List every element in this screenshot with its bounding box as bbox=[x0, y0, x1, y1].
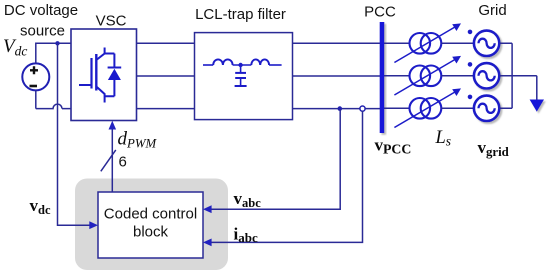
svg-text:LCL-trap filter: LCL-trap filter bbox=[195, 6, 286, 23]
AC source G3 (phase c) bbox=[474, 96, 499, 121]
wire: filter to PCC phase c bbox=[293, 108, 383, 110]
transistor Q1 gate lead bbox=[79, 84, 91, 86]
transformer T3 (phase c) bbox=[394, 88, 461, 127]
transformer T1 (phase a) bbox=[394, 23, 461, 62]
wire: PCC to transformer phase b bbox=[384, 75, 409, 77]
svg-text:DC voltage: DC voltage bbox=[4, 2, 78, 19]
svg-text:Grid: Grid bbox=[478, 2, 506, 19]
arrowhead: iabc into control block bbox=[203, 239, 212, 247]
capacitor Cf bottom plate bbox=[235, 77, 246, 79]
svg-text:6: 6 bbox=[119, 154, 127, 171]
inductor L2 bbox=[251, 59, 269, 65]
voltage source plus sign bbox=[30, 66, 38, 74]
wire: filter to PCC phase b bbox=[293, 75, 383, 77]
wire: between L1 and L2 bbox=[233, 64, 252, 66]
svg-text:iabc: iabc bbox=[234, 224, 258, 245]
transistor Q1 collector branch bbox=[96, 48, 114, 61]
wire: iabc feedback bbox=[211, 111, 363, 242]
svg-text:dPWM: dPWM bbox=[118, 129, 158, 151]
AC source G1 (phase a) bbox=[474, 31, 499, 56]
node: phase c dot marker bbox=[468, 95, 473, 100]
svg-text:VSC: VSC bbox=[96, 13, 127, 30]
wire: grid neutral bus bbox=[499, 43, 537, 108]
wire: VSC to filter phase b bbox=[137, 75, 195, 77]
diode D1 cathode lead bbox=[113, 54, 115, 97]
VSC converter box bbox=[71, 29, 137, 121]
AC source G2 (phase b) bbox=[474, 63, 499, 88]
node: vabc tap dot bbox=[338, 106, 343, 111]
node: vdc tap junction dot bbox=[55, 41, 59, 45]
wire: source bottom terminal to bottom DC rail with hop bbox=[36, 90, 71, 108]
transformer T2 (phase b) bbox=[394, 56, 461, 95]
wire: transformer to grid source phase b bbox=[441, 75, 473, 77]
svg-text:Ls: Ls bbox=[435, 128, 452, 149]
transistor Q1 emitter branch bbox=[96, 87, 114, 103]
voltage source V1 circle bbox=[22, 63, 49, 90]
wire: PCC to transformer phase c bbox=[384, 107, 409, 109]
ground arrow bbox=[530, 100, 544, 112]
wire: source top terminal to top DC rail bbox=[36, 43, 71, 63]
wire: trap inductor stub bbox=[240, 78, 242, 86]
voltage source minus sign bbox=[30, 85, 38, 88]
node: iabc tap open dot bbox=[360, 106, 365, 111]
svg-text:vdc: vdc bbox=[30, 196, 51, 217]
wire: filter to PCC phase a bbox=[293, 42, 383, 44]
LCL-trap filter box bbox=[195, 33, 293, 120]
wire: vdc sense line down to control block bbox=[58, 43, 90, 225]
svg-text:block: block bbox=[133, 224, 169, 241]
node: phase b dot marker bbox=[468, 62, 473, 67]
svg-text:vabc: vabc bbox=[234, 189, 262, 210]
arrowhead: vdc into control block bbox=[89, 221, 98, 229]
transistor Q1 body bar bbox=[95, 54, 97, 91]
svg-text:Coded control: Coded control bbox=[104, 206, 197, 223]
bus width slash mark bbox=[101, 150, 116, 171]
coded control block box bbox=[98, 192, 203, 258]
wire: transformer to grid source phase a bbox=[441, 42, 473, 44]
transistor Q1 gate bar bbox=[90, 58, 92, 89]
wire: trap branch stub bbox=[240, 65, 242, 72]
diode D1 cathode bar bbox=[108, 67, 122, 69]
PCC busbar bbox=[380, 22, 385, 133]
arrowhead: vabc into control block bbox=[203, 205, 212, 213]
wire: dPWM from control block to VSC bbox=[111, 128, 113, 192]
svg-text:vPCC: vPCC bbox=[375, 136, 412, 157]
svg-text:source: source bbox=[20, 23, 65, 40]
capacitor Cf top plate bbox=[235, 72, 246, 74]
wire: vabc feedback bbox=[211, 110, 340, 210]
wire: PCC to transformer phase a bbox=[384, 42, 409, 44]
inductor L1 bbox=[213, 59, 232, 65]
wire: transformer to grid source phase c bbox=[441, 107, 473, 109]
node: trap branch junction dot bbox=[238, 63, 242, 67]
diode D1 triangle bbox=[108, 69, 121, 80]
wire: filter internal right lead bbox=[269, 64, 282, 66]
wire: VSC to filter phase a bbox=[137, 42, 195, 44]
node: phase a dot marker bbox=[468, 30, 473, 35]
wire: filter internal left lead bbox=[203, 64, 213, 66]
arrowhead: dPWM into VSC bbox=[109, 121, 117, 130]
control block container (gray) bbox=[75, 179, 228, 271]
wire: VSC to filter phase c bbox=[137, 108, 195, 110]
svg-text:vgrid: vgrid bbox=[478, 138, 509, 159]
trap branch end bar bbox=[235, 85, 247, 87]
svg-text:PCC: PCC bbox=[364, 4, 396, 21]
